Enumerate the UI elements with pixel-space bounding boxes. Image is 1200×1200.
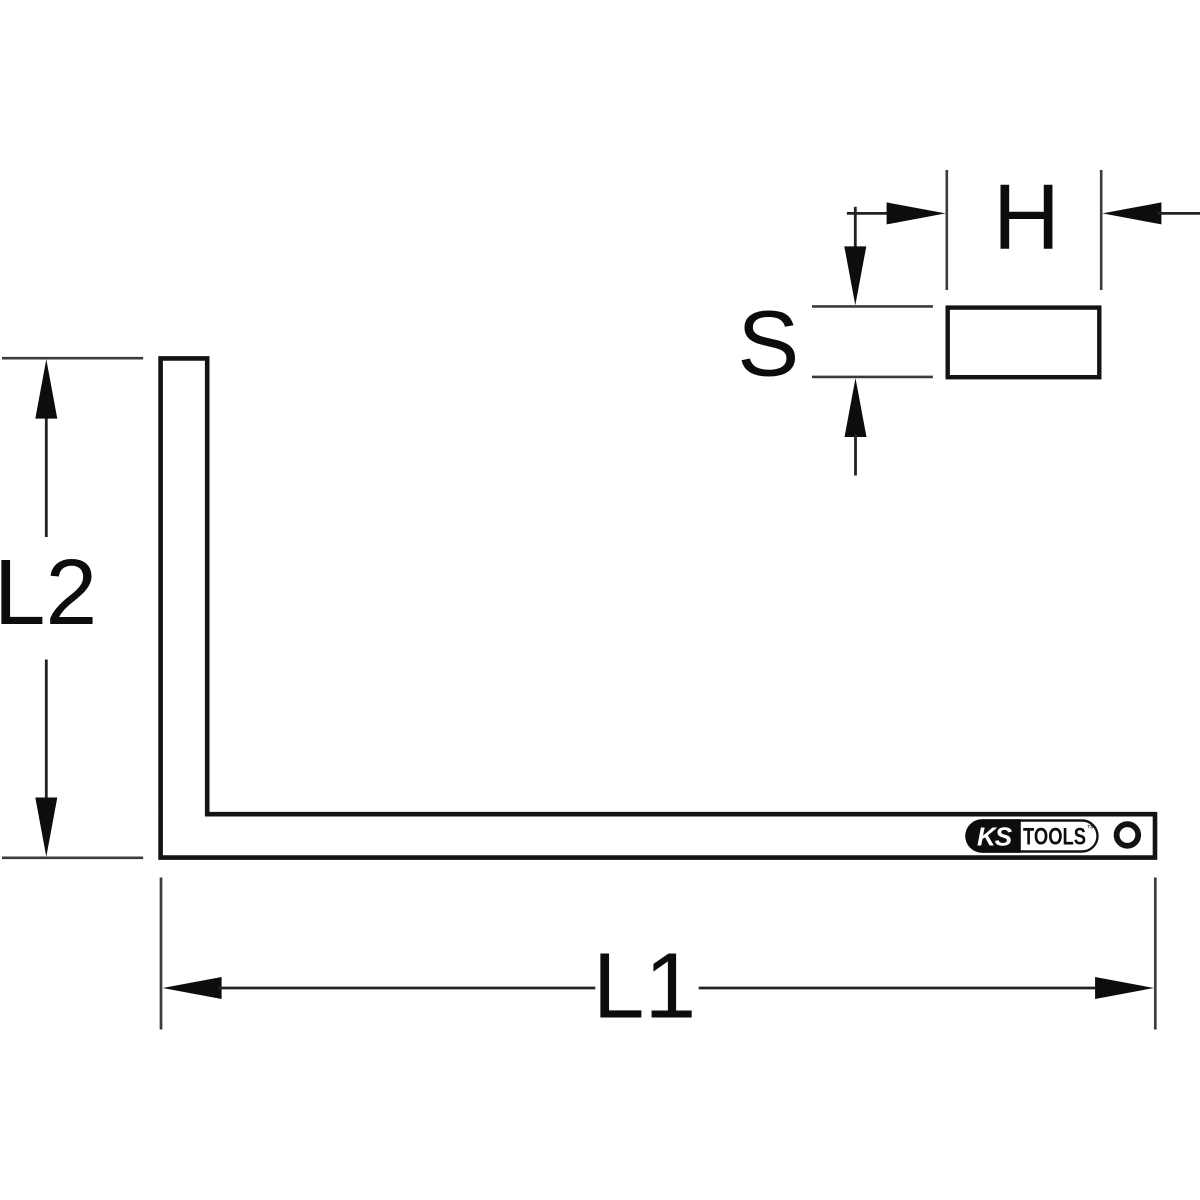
arrowhead H right [1102,202,1161,224]
dimension line S upper tail [854,207,857,250]
dimension line L2 lower segment [45,660,48,802]
dimension line S lower tail [854,434,857,476]
tool outline (L-shaped wrench body) [161,358,1155,857]
dimension line H right tail [1158,212,1200,215]
arrowhead H left [887,202,946,224]
dimension line L1 right segment [699,987,1098,990]
extension line S top [812,305,933,308]
svg-text:L2: L2 [0,540,97,644]
arrowhead L1 left [163,977,222,999]
svg-text:S: S [737,292,799,396]
extension line right (L1) [1154,878,1157,1030]
dimension line L1 left segment [218,987,595,990]
extension line H left [945,170,948,290]
svg-text:KS: KS [977,822,1013,852]
arrowhead L2 up [35,359,57,418]
svg-text:TOOLS: TOOLS [1023,824,1086,851]
extension line S bottom [812,376,933,379]
arrowhead L2 down [35,798,57,857]
hole circle [1117,824,1139,846]
extension line top (L2 upper) [2,357,143,360]
extension line left (L1) [160,878,163,1030]
arrowhead S down [844,246,866,305]
dimension line H left tail [847,212,890,215]
dimension line L2 upper segment [45,415,48,537]
extension line H right [1100,170,1103,290]
arrowhead L1 right [1095,977,1154,999]
svg-text:L1: L1 [593,933,696,1037]
extension line bottom (L2 lower) [2,856,143,859]
svg-text:H: H [993,165,1060,269]
arrowhead S up [845,378,867,437]
cross-section rectangle [948,308,1100,378]
KS TOOLS logo [965,819,1097,852]
svg-text:™: ™ [1087,823,1096,833]
